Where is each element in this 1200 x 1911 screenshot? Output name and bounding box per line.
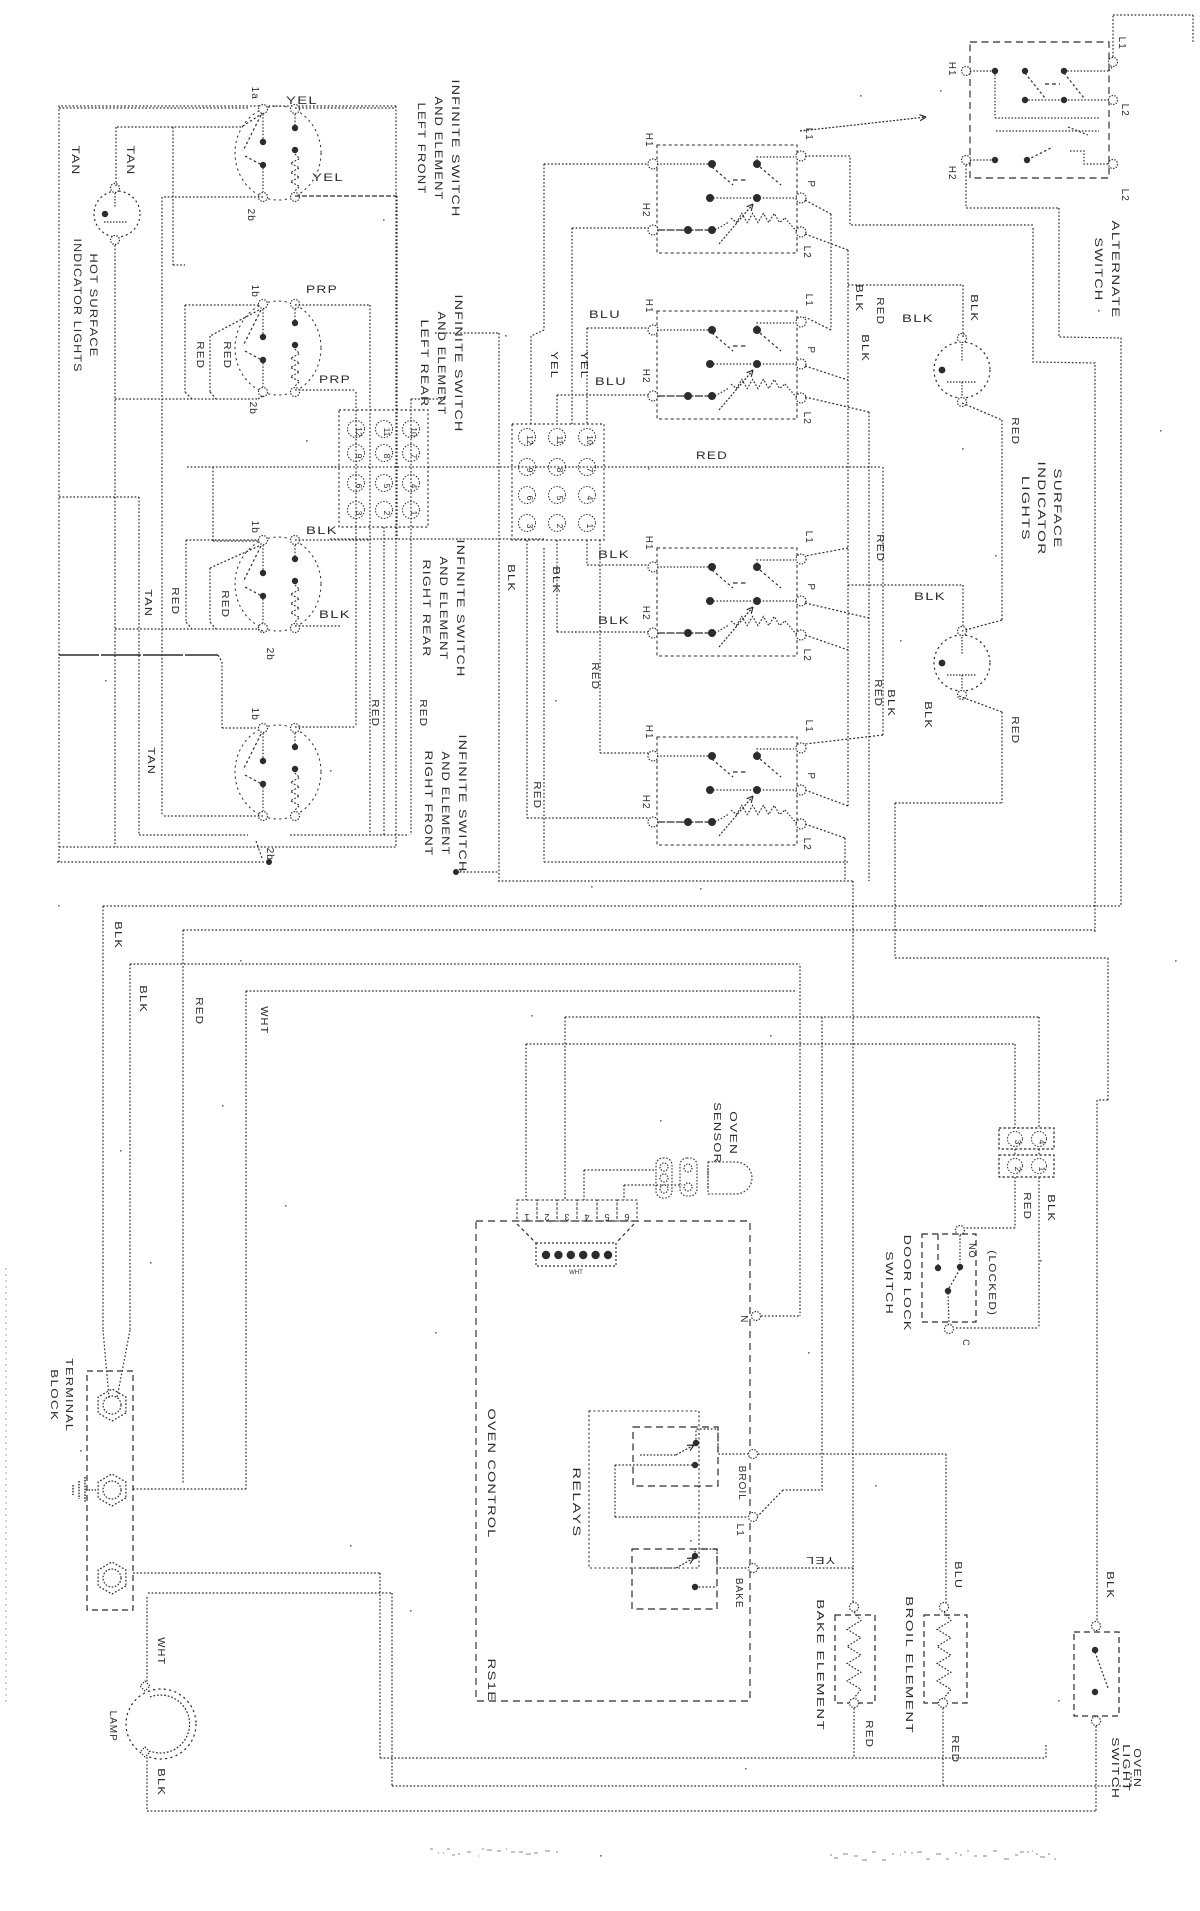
solid wire y655 xyxy=(59,654,218,656)
svg-text:WHT: WHT xyxy=(155,1637,166,1665)
svg-text:P: P xyxy=(805,180,816,188)
terminal H2 xyxy=(648,225,658,235)
switch element chain xyxy=(294,733,296,748)
alt internal vertical xyxy=(994,71,996,118)
svg-text:RED: RED xyxy=(863,1720,874,1748)
svg-text:BLK: BLK xyxy=(902,313,934,325)
wire x544 lower xyxy=(543,548,545,862)
wire bake bottom xyxy=(853,1708,855,1758)
wire N xyxy=(761,1315,800,1317)
switch terminals xyxy=(259,724,268,733)
svg-text:BLK: BLK xyxy=(1045,1194,1056,1222)
contact row 2 xyxy=(710,197,797,199)
svg-text:INFINITE SWITCH: INFINITE SWITCH xyxy=(449,80,461,218)
wire hex3 buses xyxy=(133,1572,380,1574)
terminal block box xyxy=(87,1371,133,1610)
switch box outline xyxy=(657,145,797,253)
contact row 2 xyxy=(710,363,797,365)
wire to switch3 TL xyxy=(212,467,214,541)
wire box1 L1 to alternate switch xyxy=(805,156,1033,225)
svg-text:3: 3 xyxy=(564,1212,569,1222)
terminal H1 xyxy=(648,751,658,761)
contact row 2 xyxy=(710,789,797,791)
svg-text:2b: 2b xyxy=(245,209,256,222)
oven light switch xyxy=(1092,1622,1101,1631)
wire bottom left xyxy=(139,834,248,836)
wire x600 to sw4H1 xyxy=(599,540,601,753)
oven sensor plug 1 xyxy=(656,1158,672,1198)
svg-text:L1: L1 xyxy=(803,294,814,307)
svg-text:8: 8 xyxy=(382,454,392,459)
terminal P xyxy=(796,785,806,795)
svg-text:RS1E: RS1E xyxy=(485,1659,497,1703)
alt feed RV1 xyxy=(1033,228,1095,932)
wire lamp bottom down xyxy=(114,245,116,847)
svg-text:TERMINAL: TERMINAL xyxy=(63,1358,74,1432)
switch left contact chain xyxy=(262,114,264,141)
svg-text:AND ELEMENT: AND ELEMENT xyxy=(439,752,451,856)
wire switch2 BL down xyxy=(258,396,263,399)
wire BAKE run xyxy=(758,1567,853,1569)
terminal BAKE xyxy=(749,1564,758,1573)
svg-text:RIGHT FRONT: RIGHT FRONT xyxy=(422,751,434,857)
wire oven light bottom xyxy=(1095,1726,1097,1811)
svg-text:2: 2 xyxy=(555,524,565,529)
contact row 1 xyxy=(657,566,712,568)
svg-text:L1: L1 xyxy=(734,1524,745,1537)
svg-text:P: P xyxy=(805,772,816,780)
svg-text:AND ELEMENT: AND ELEMENT xyxy=(435,312,447,416)
alt terminal L1 xyxy=(1109,58,1118,67)
bus y958 xyxy=(895,957,1108,959)
contact row 1 xyxy=(657,755,712,757)
right chain Ve xyxy=(805,635,848,650)
svg-text:H1: H1 xyxy=(643,725,654,740)
bake element xyxy=(850,1603,859,1612)
svg-text:BLOCK: BLOCK xyxy=(48,1369,59,1421)
svg-text:10: 10 xyxy=(585,435,595,445)
svg-text:DOOR LOCK: DOOR LOCK xyxy=(901,1235,912,1332)
switch terminals xyxy=(259,300,268,309)
wire sw2H1 left xyxy=(587,327,649,329)
switch left contact chain xyxy=(262,545,264,572)
svg-text:1: 1 xyxy=(524,1212,529,1222)
svg-text:L2: L2 xyxy=(1119,104,1130,117)
chain diag box2P xyxy=(805,366,848,380)
terminal L1 xyxy=(796,151,806,161)
svg-text:2: 2 xyxy=(1013,1167,1023,1172)
wire switch1 BR right solid xyxy=(295,195,397,197)
svg-text:YEL: YEL xyxy=(805,1554,835,1565)
switch terminals xyxy=(259,536,268,545)
svg-text:LIGHTS: LIGHTS xyxy=(1019,476,1031,541)
bus y1786 xyxy=(392,1785,1131,1787)
svg-text:1a: 1a xyxy=(249,87,260,100)
svg-text:11: 11 xyxy=(555,436,565,445)
svg-text:PRP: PRP xyxy=(319,374,351,386)
svg-text:L1: L1 xyxy=(803,720,814,733)
svg-text:7: 7 xyxy=(585,468,595,473)
svg-text:H1: H1 xyxy=(643,133,654,148)
wire switch2 BR xyxy=(295,389,356,391)
svg-text:BLK: BLK xyxy=(112,921,123,949)
svg-text:BAKE: BAKE xyxy=(733,1578,744,1609)
relay bake internals xyxy=(640,1567,676,1569)
svg-text:WHT: WHT xyxy=(569,1270,583,1276)
svg-text:NO: NO xyxy=(967,1243,977,1259)
svg-text:2b: 2b xyxy=(264,848,275,861)
svg-text:TAN: TAN xyxy=(69,146,81,176)
terminal L1 oven xyxy=(749,1513,758,1522)
arrow to alternate switch xyxy=(800,117,926,131)
svg-text:H1: H1 xyxy=(643,536,654,551)
svg-text:2b: 2b xyxy=(247,402,258,415)
svg-text:HOT SURFACE: HOT SURFACE xyxy=(87,254,99,358)
right chain Vc xyxy=(805,397,869,412)
svg-text:RED: RED xyxy=(194,341,205,369)
vertical x853 bake feed xyxy=(852,881,854,1569)
plug trapezoid xyxy=(517,1224,536,1243)
wire switch4 BL xyxy=(162,815,263,817)
terminal BROIL xyxy=(749,1450,758,1459)
svg-text:1b: 1b xyxy=(249,285,260,298)
wire hex3 down xyxy=(146,1597,148,1686)
wire switch2 TR xyxy=(295,304,370,306)
RED bus y467 xyxy=(428,466,880,468)
chain diag box3P xyxy=(805,603,869,618)
lamp body xyxy=(934,342,990,398)
relay broil internals xyxy=(640,1454,676,1456)
wire BLK door lock xyxy=(1038,1177,1040,1328)
infinite switch right rear xyxy=(235,537,321,631)
oven control box xyxy=(476,1221,750,1701)
svg-text:RED: RED xyxy=(696,450,728,462)
bus y881 xyxy=(498,880,853,882)
svg-text:5: 5 xyxy=(555,496,565,501)
switch box outline xyxy=(657,548,797,656)
wire switch4 TR xyxy=(295,726,356,728)
lamp electrodes xyxy=(939,660,946,667)
svg-text:BLK: BLK xyxy=(859,334,870,362)
left block outer box xyxy=(59,106,396,862)
wire switch1 BL chain xyxy=(162,196,263,198)
svg-text:LAMP: LAMP xyxy=(107,1711,118,1742)
terminal C xyxy=(945,1325,954,1334)
svg-text:TAN: TAN xyxy=(142,589,153,617)
infinite switch right front xyxy=(235,725,321,819)
svg-text:BLK: BLK xyxy=(885,689,896,717)
wire lamp bottom xyxy=(146,1757,148,1811)
relays box xyxy=(589,1411,699,1568)
svg-text:YEL: YEL xyxy=(312,172,344,184)
oven sensor wire xyxy=(584,1169,656,1171)
footer scan noise xyxy=(430,1849,1056,1860)
svg-text:BLK: BLK xyxy=(922,701,933,729)
terminal P xyxy=(796,193,806,203)
terminal H2 xyxy=(648,817,658,827)
svg-text:H1: H1 xyxy=(946,62,957,77)
vertical x895 top xyxy=(894,957,896,959)
wire switch3 TR xyxy=(295,539,370,541)
left vertical BLK1 xyxy=(102,906,104,1330)
junction circle xyxy=(453,869,459,875)
strip wires xyxy=(525,1044,527,1200)
lamp1 bottom wire xyxy=(962,403,1002,420)
svg-text:OVEN CONTROL: OVEN CONTROL xyxy=(485,1409,497,1539)
svg-text:INFINITE SWITCH: INFINITE SWITCH xyxy=(452,295,464,433)
connector strip xyxy=(517,1200,537,1221)
svg-text:RED: RED xyxy=(874,297,885,325)
terminal NO xyxy=(956,1226,965,1235)
switch terminals xyxy=(259,105,268,114)
wire grid to surface top xyxy=(411,398,445,400)
wire BROIL run xyxy=(758,1453,946,1455)
terminal P xyxy=(796,596,806,606)
svg-text:BLK: BLK xyxy=(137,985,148,1013)
svg-text:SENSOR: SENSOR xyxy=(711,1102,722,1164)
wire col3 to sw3H1 xyxy=(586,540,588,565)
connector wires top xyxy=(1014,1044,1016,1128)
svg-text:5: 5 xyxy=(604,1212,609,1222)
svg-text:BLK: BLK xyxy=(306,525,338,537)
svg-text:P: P xyxy=(805,346,816,354)
hex terminal L1 xyxy=(98,1389,126,1421)
terminal L2 xyxy=(796,227,806,237)
door lock internals xyxy=(937,1234,939,1266)
svg-text:4: 4 xyxy=(585,496,595,501)
wire x499 xyxy=(435,332,499,334)
svg-text:BLK: BLK xyxy=(505,564,516,592)
svg-text:BLU: BLU xyxy=(589,309,621,321)
svg-text:2b: 2b xyxy=(264,648,275,661)
terminal L1 xyxy=(796,743,806,753)
svg-text:INDICATOR LIGHTS: INDICATOR LIGHTS xyxy=(71,239,83,373)
infinite switch left rear xyxy=(235,301,321,395)
svg-text:RED: RED xyxy=(949,1735,960,1763)
svg-text:RIGHT REAR: RIGHT REAR xyxy=(420,560,432,658)
wire hex2 right xyxy=(133,1488,246,1490)
svg-text:BAKE ELEMENT: BAKE ELEMENT xyxy=(814,1599,825,1731)
door lock switch box xyxy=(922,1234,976,1322)
terminal H1 xyxy=(648,159,658,169)
terminal L2 xyxy=(796,393,806,403)
svg-text:L2: L2 xyxy=(1119,189,1130,202)
relay broil box xyxy=(633,1427,718,1486)
svg-text:WHT: WHT xyxy=(258,1006,269,1034)
oven lamp xyxy=(140,1681,150,1691)
alt internals row2 xyxy=(1025,99,1109,101)
infinite switch left front xyxy=(235,106,321,200)
switch box outline xyxy=(657,737,797,845)
svg-text:AND ELEMENT: AND ELEMENT xyxy=(432,97,444,201)
svg-text:L2: L2 xyxy=(801,838,812,851)
bus y991 xyxy=(246,990,797,992)
left vertical WHT xyxy=(245,991,247,1489)
svg-text:H2: H2 xyxy=(640,795,651,810)
wire y467 left xyxy=(187,466,339,468)
svg-text:L1: L1 xyxy=(803,531,814,544)
terminal H1 xyxy=(648,562,658,572)
wire sw2H2 left xyxy=(557,394,649,396)
svg-text:RED: RED xyxy=(1009,417,1020,445)
hex terminal L2 xyxy=(98,1562,126,1594)
svg-text:SURFACE: SURFACE xyxy=(1051,469,1063,549)
wire x544 upper xyxy=(543,164,545,330)
svg-text:BLK: BLK xyxy=(1104,1571,1115,1599)
switch left contact chain xyxy=(262,733,264,760)
oven sensor bulb xyxy=(708,1162,752,1194)
svg-text:PRP: PRP xyxy=(306,284,338,296)
right chain Vd xyxy=(882,467,884,735)
svg-text:6: 6 xyxy=(624,1212,629,1222)
svg-text:BLK: BLK xyxy=(155,1768,166,1796)
wire y862 left xyxy=(57,861,264,863)
svg-text:C: C xyxy=(961,1339,971,1347)
svg-text:8: 8 xyxy=(555,468,565,473)
svg-text:YEL: YEL xyxy=(578,351,589,379)
wire x587 upper xyxy=(586,328,588,424)
alt terminal L2 bot xyxy=(1109,160,1118,169)
bus y1758 xyxy=(380,1757,1046,1759)
lamp1 top wire xyxy=(962,285,964,337)
svg-text:BLK: BLK xyxy=(319,609,351,621)
svg-text:12: 12 xyxy=(525,435,535,445)
svg-text:BLK: BLK xyxy=(598,615,630,627)
ground symbol xyxy=(86,1489,96,1491)
element row xyxy=(657,821,715,823)
right chain Va xyxy=(805,200,831,214)
svg-text:11: 11 xyxy=(382,428,392,437)
right chain Vb xyxy=(805,234,848,250)
hot surface indicator lamp xyxy=(94,191,140,237)
svg-text:1b: 1b xyxy=(249,521,260,534)
wire bottom right xyxy=(290,834,409,836)
terminal H1 xyxy=(648,325,658,335)
svg-text:BLK: BLK xyxy=(598,549,630,561)
element row xyxy=(657,395,715,397)
wire sw1H1 left xyxy=(544,163,649,165)
svg-text:OVEN: OVEN xyxy=(1131,1748,1142,1788)
svg-text:INFINITE SWITCH: INFINITE SWITCH xyxy=(456,735,468,873)
alt terminal L2 mid xyxy=(1109,96,1118,105)
svg-text:RED: RED xyxy=(193,997,204,1025)
svg-text:BLK: BLK xyxy=(968,294,979,322)
alt terminal H1 xyxy=(962,67,971,76)
wire col1 to sw4H2 xyxy=(526,540,528,818)
wire lamp top xyxy=(117,126,243,128)
terminal L2 xyxy=(796,630,806,640)
svg-text:INDICATOR: INDICATOR xyxy=(1035,462,1047,556)
svg-text:BLU: BLU xyxy=(595,376,627,388)
bus y1044 xyxy=(526,1043,1015,1045)
svg-text:L2: L2 xyxy=(801,246,812,259)
wire L1 xyxy=(615,1516,748,1518)
bus y906 xyxy=(103,905,1121,907)
svg-text:AND ELEMENT: AND ELEMENT xyxy=(437,557,449,661)
element row xyxy=(657,632,715,634)
svg-text:ALTERNATE: ALTERNATE xyxy=(1109,221,1121,319)
svg-text:N: N xyxy=(738,1315,749,1323)
wire switch2 TL left xyxy=(185,304,259,306)
right vertical oven light xyxy=(1120,905,1122,907)
bus y964 xyxy=(130,963,800,965)
svg-text:L1: L1 xyxy=(1116,37,1127,50)
contact row 1 xyxy=(657,163,712,165)
chain diag box4L2 xyxy=(805,824,845,838)
svg-text:BROIL: BROIL xyxy=(736,1466,747,1501)
alt internals row1 xyxy=(970,70,995,72)
svg-text:1: 1 xyxy=(585,524,595,529)
svg-text:L2: L2 xyxy=(801,649,812,662)
switch left contact chain xyxy=(262,309,264,336)
svg-text:SWITCH: SWITCH xyxy=(1092,238,1104,302)
wire x137 xyxy=(59,496,139,498)
wire y539 xyxy=(330,538,544,540)
left page edge artifact xyxy=(5,1268,7,1705)
svg-text:(LOCKED): (LOCKED) xyxy=(986,1250,997,1316)
svg-text:YEL: YEL xyxy=(548,351,559,379)
svg-text:LIGHT: LIGHT xyxy=(1120,1744,1131,1792)
svg-text:H2: H2 xyxy=(640,369,651,384)
terminal N xyxy=(752,1312,761,1321)
switch element chain xyxy=(294,309,296,324)
wire to switch4 TL xyxy=(221,662,223,728)
svg-text:H2: H2 xyxy=(946,166,957,181)
svg-text:H2: H2 xyxy=(640,203,651,218)
svg-text:6: 6 xyxy=(525,496,535,501)
svg-text:2: 2 xyxy=(544,1212,549,1222)
svg-text:4: 4 xyxy=(1037,1140,1047,1145)
wire RED door lock xyxy=(1014,1177,1016,1228)
svg-text:BLK: BLK xyxy=(550,566,561,594)
svg-text:RED: RED xyxy=(589,662,600,690)
wire x572 xyxy=(571,228,573,424)
svg-text:LEFT REAR: LEFT REAR xyxy=(418,320,430,408)
svg-text:L2: L2 xyxy=(801,412,812,425)
hex terminal neutral xyxy=(98,1474,126,1506)
alt feeds down RV2 xyxy=(1059,208,1121,906)
lamp2 top wire xyxy=(962,620,1002,631)
svg-text:BLK: BLK xyxy=(853,284,864,312)
svg-text:RED: RED xyxy=(531,781,542,809)
svg-text:RED: RED xyxy=(1009,716,1020,744)
svg-text:H2: H2 xyxy=(640,606,651,621)
bus y930 xyxy=(183,929,1095,931)
left vertical BLK2 xyxy=(129,964,131,1330)
terminal L2 xyxy=(796,819,806,829)
svg-text:INFINITE SWITCH: INFINITE SWITCH xyxy=(454,540,466,678)
wire top edge to switch xyxy=(59,107,248,109)
svg-text:1b: 1b xyxy=(249,708,260,721)
svg-text:SWITCH: SWITCH xyxy=(883,1251,894,1315)
terminal H2 xyxy=(648,628,658,638)
wire x173 stub xyxy=(172,127,174,265)
alt wire H2 out xyxy=(966,165,1059,208)
lamp body xyxy=(934,635,990,691)
svg-text:RED: RED xyxy=(369,699,380,727)
bus y1811 xyxy=(147,1810,1096,1812)
svg-text:BLK: BLK xyxy=(914,591,946,603)
lamp terminals xyxy=(958,627,967,636)
svg-text:TAN: TAN xyxy=(124,146,136,176)
oven sensor plug 2 xyxy=(680,1158,697,1196)
vertical x822 broil L1 feed xyxy=(783,1017,822,1490)
switch element chain xyxy=(294,114,296,129)
terminal grid surface block xyxy=(512,424,604,540)
svg-text:BLU: BLU xyxy=(952,1561,963,1589)
svg-text:OVEN: OVEN xyxy=(727,1111,738,1155)
svg-text:H1: H1 xyxy=(643,299,654,314)
